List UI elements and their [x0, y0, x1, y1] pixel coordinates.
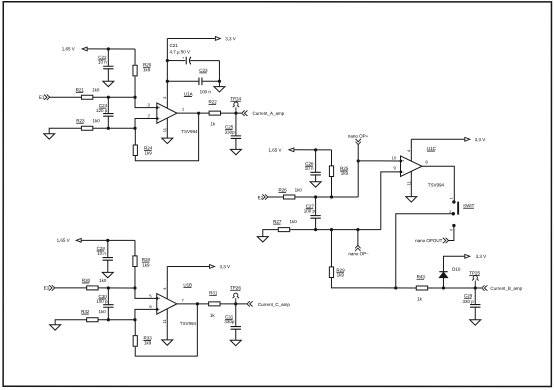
svg-text:1k0: 1k0: [98, 309, 106, 314]
svg-text:100 p: 100 p: [96, 299, 108, 304]
ground: [406, 197, 417, 202]
svg-text:1,65 V: 1,65 V: [62, 46, 75, 51]
svg-text:C29: C29: [464, 293, 473, 298]
testpoint TP24: [235, 107, 237, 113]
wire: [134, 320, 136, 335]
svg-text:C21: C21: [169, 43, 178, 48]
svg-text:10 n: 10 n: [97, 251, 106, 256]
svg-text:nano OPOUT: nano OPOUT: [415, 238, 443, 243]
svg-text:U1A: U1A: [184, 92, 193, 97]
svg-text:120 p: 120 p: [96, 108, 108, 113]
node: [234, 302, 237, 305]
svg-text:1k: 1k: [210, 313, 216, 318]
wire feedback A: [135, 113, 198, 161]
testpoint TP25: [474, 280, 476, 288]
wire: [221, 112, 241, 114]
svg-text:7: 7: [182, 298, 185, 303]
svg-text:1k0: 1k0: [92, 87, 100, 92]
svg-text:4: 4: [162, 96, 167, 99]
svg-text:10 n: 10 n: [98, 60, 107, 65]
wire: [49, 128, 81, 134]
wire: [50, 96, 82, 98]
svg-text:R32: R32: [81, 309, 90, 314]
node -inC: [107, 318, 110, 321]
wire: [268, 196, 284, 198]
node outC: [196, 302, 199, 305]
wire pin11 to ground: [166, 118, 168, 138]
svg-text:9: 9: [394, 165, 397, 170]
wire pin4 to 3.3V: [410, 139, 412, 161]
svg-text:11: 11: [162, 127, 167, 132]
connector Current_B_amp: [482, 285, 485, 290]
svg-text:1k9: 1k9: [144, 340, 152, 345]
switch SWIT terminal 3: [452, 224, 455, 227]
svg-text:3: 3: [147, 102, 150, 107]
wire: [331, 150, 333, 166]
wire pin4 to 3.3V: [166, 266, 168, 298]
svg-text:3,3 V: 3,3 V: [475, 137, 486, 142]
resistor R24: [133, 145, 137, 156]
wire: [93, 96, 135, 98]
ground: [102, 272, 113, 277]
resistor R32: [87, 318, 98, 322]
svg-text:R43: R43: [417, 274, 426, 279]
svg-text:Current_A_amp: Current_A_amp: [253, 111, 285, 116]
capacitor C29: [474, 288, 476, 305]
resistor R26: [283, 195, 294, 199]
node: [474, 286, 477, 289]
wire pin9: [381, 172, 401, 230]
op-amp U1A: [157, 103, 177, 123]
svg-text:1k0: 1k0: [99, 278, 107, 283]
svg-text:4: 4: [162, 287, 167, 290]
svg-text:4,7 µ 50 V: 4,7 µ 50 V: [169, 49, 190, 54]
svg-text:SWIT: SWIT: [463, 203, 475, 208]
connector Current_C_amp: [247, 301, 250, 306]
svg-text:3: 3: [449, 229, 453, 231]
power 3.3V (circuit B): [411, 138, 465, 140]
svg-text:1: 1: [449, 197, 453, 199]
svg-text:U1C: U1C: [427, 146, 437, 151]
svg-text:1k9: 1k9: [143, 67, 151, 72]
svg-text:8: 8: [425, 159, 428, 164]
svg-text:6: 6: [149, 304, 152, 309]
resistor R23: [81, 126, 92, 130]
svg-text:+: +: [159, 106, 161, 110]
resistor R25: [329, 166, 333, 177]
wire: [87, 48, 135, 50]
svg-text:1k9: 1k9: [142, 263, 150, 268]
svg-text:TP25: TP25: [469, 270, 480, 275]
wire: [220, 303, 246, 305]
svg-text:330p: 330p: [225, 130, 236, 135]
svg-text:1,65 V: 1,65 V: [57, 238, 70, 243]
svg-text:5: 5: [149, 293, 152, 298]
ground: [230, 149, 241, 154]
ground: [50, 325, 61, 330]
wire pin5: [135, 288, 157, 298]
power 3.3V (diode): [465, 254, 470, 258]
capacitor C22: [107, 49, 109, 66]
svg-text:330p: 330p: [224, 319, 235, 324]
power 3.3V (circuit A): [167, 37, 215, 39]
svg-text:TSV994: TSV994: [180, 321, 197, 326]
svg-text:1k9: 1k9: [337, 273, 345, 278]
wire pin11 to ground: [166, 309, 168, 340]
ground: [44, 134, 55, 139]
svg-text:U1B: U1B: [183, 282, 192, 287]
svg-text:1k0: 1k0: [93, 118, 101, 123]
node: [394, 286, 397, 289]
node: [234, 112, 237, 115]
svg-text:+: +: [402, 159, 404, 163]
wire: [134, 128, 136, 145]
capacitor C28: [107, 240, 109, 257]
wire pin10: [358, 160, 400, 162]
svg-text:Current_B_amp: Current_B_amp: [490, 286, 522, 291]
svg-text:1,65 V: 1,65 V: [269, 148, 282, 153]
node bias C: [106, 239, 109, 242]
svg-text:R26: R26: [279, 188, 288, 193]
svg-text:TSV994: TSV994: [181, 129, 198, 134]
wire: [443, 256, 464, 271]
svg-text:nano OP−: nano OP−: [348, 251, 369, 256]
svg-text:−: −: [159, 308, 161, 312]
svg-text:2: 2: [147, 113, 150, 118]
node -inB: [314, 228, 317, 231]
wire: [98, 319, 135, 321]
wire pin4 to 3.3V rail: [166, 38, 168, 108]
wire: [330, 230, 332, 267]
svg-text:TP26: TP26: [230, 285, 241, 290]
op-amp U1C: [401, 156, 423, 177]
svg-text:330 p: 330 p: [462, 299, 474, 304]
switch SWIT actuator: [457, 202, 459, 215]
svg-text:+: +: [182, 56, 184, 60]
svg-text:100 p: 100 p: [304, 209, 316, 214]
wire: [357, 145, 359, 197]
svg-text:R22: R22: [209, 99, 218, 104]
resistor R28: [133, 256, 137, 267]
ground: [162, 138, 173, 143]
svg-text:R28: R28: [142, 257, 151, 262]
capacitor C26: [315, 150, 317, 173]
node: [166, 59, 169, 62]
wire: [295, 196, 359, 198]
ground: [470, 320, 481, 325]
wire: [98, 287, 135, 289]
svg-text:−: −: [402, 170, 404, 174]
svg-text:1k9: 1k9: [341, 171, 349, 176]
node bias A: [107, 47, 110, 50]
capacitor C27: [315, 197, 317, 216]
resistor R29: [329, 267, 333, 278]
wire: [263, 230, 279, 237]
wire: [55, 320, 87, 325]
resistor R21: [81, 95, 92, 99]
capacitor C31: [235, 304, 237, 327]
resistor R20: [133, 65, 137, 76]
svg-text:10 n: 10 n: [305, 166, 314, 171]
svg-text:E3: E3: [44, 286, 50, 291]
capacitor C24: [107, 97, 109, 113]
wire: [93, 127, 135, 129]
svg-text:1k: 1k: [417, 297, 423, 302]
ground: [230, 340, 241, 345]
wire: [134, 49, 136, 65]
svg-text:+: +: [159, 296, 161, 300]
connector Current_A_amp: [242, 110, 245, 115]
wire: [218, 61, 220, 87]
wire pin2: [135, 119, 157, 129]
ground: [310, 182, 321, 187]
svg-text:11: 11: [162, 319, 167, 324]
svg-text:C23: C23: [199, 68, 208, 73]
op-amp U1B: [157, 294, 177, 315]
svg-text:TP24: TP24: [230, 96, 241, 101]
switch SWIT terminal 1: [452, 200, 455, 203]
node: [166, 80, 169, 83]
svg-text:R21: R21: [76, 87, 85, 92]
switch SWIT terminal 2: [452, 212, 455, 215]
svg-text:Current_C_amp: Current_C_amp: [258, 302, 291, 307]
svg-text:R30: R30: [82, 278, 91, 283]
wire switch to output node: [396, 214, 454, 288]
wire: [81, 239, 135, 241]
svg-text:D10: D10: [452, 267, 461, 272]
ground: [257, 237, 268, 242]
wire: [55, 287, 87, 289]
testpoint TP26: [235, 298, 237, 304]
svg-text:R31: R31: [209, 290, 218, 295]
node bias B: [314, 148, 317, 151]
wire: [290, 229, 381, 231]
svg-text:1: 1: [182, 107, 185, 112]
wire pin11 to ground: [410, 171, 412, 196]
capacitor C23: [167, 80, 198, 82]
wire pin6: [135, 309, 157, 319]
node +inC: [107, 286, 110, 289]
node outA: [197, 112, 200, 115]
ground: [103, 81, 114, 86]
wire pin3: [135, 97, 157, 107]
wire: [294, 149, 332, 151]
resistor R31: [209, 302, 220, 306]
wire: [357, 230, 359, 246]
svg-text:1k0: 1k0: [289, 219, 297, 224]
svg-text:100 n: 100 n: [200, 89, 212, 94]
power 3.3V (circuit C): [167, 265, 210, 267]
svg-text:3,3 V: 3,3 V: [476, 254, 487, 259]
node: [442, 286, 445, 289]
svg-text:4: 4: [406, 149, 411, 152]
svg-text:10: 10: [392, 155, 397, 160]
svg-text:−: −: [159, 117, 161, 121]
resistor R33: [133, 336, 137, 347]
wire: [134, 240, 136, 256]
ground: [214, 87, 225, 92]
svg-text:3,3 V: 3,3 V: [225, 36, 236, 41]
svg-text:1k9: 1k9: [145, 150, 153, 155]
svg-text:R23: R23: [76, 118, 85, 123]
node: [218, 80, 221, 83]
diode D10: [442, 278, 444, 288]
wire output U1C to switch: [422, 166, 454, 202]
svg-text:3,3 V: 3,3 V: [219, 264, 230, 269]
resistor R30: [87, 286, 98, 290]
svg-text:nano OP+: nano OP+: [348, 134, 369, 139]
node +inB: [314, 195, 317, 198]
node +inA: [107, 96, 110, 99]
svg-text:1k: 1k: [210, 121, 216, 126]
resistor R27: [278, 228, 289, 232]
node: [357, 159, 360, 162]
wire: [428, 287, 481, 289]
node -inA: [107, 127, 110, 130]
wire output A: [177, 112, 210, 114]
svg-text:TSV994: TSV994: [428, 183, 445, 188]
resistor R43: [416, 286, 427, 290]
wire output C: [177, 303, 209, 305]
wire: [449, 226, 454, 241]
ground: [162, 340, 173, 345]
svg-text:11: 11: [406, 181, 411, 186]
capacitor C30: [107, 288, 109, 305]
capacitor C21 polarized 4.7u: [167, 60, 185, 62]
wire feedback C: [135, 304, 197, 356]
resistor R22: [209, 111, 220, 115]
svg-text:1k0: 1k0: [295, 188, 303, 193]
svg-text:E1: E1: [39, 95, 45, 100]
capacitor C25: [235, 113, 237, 136]
svg-text:R27: R27: [273, 219, 282, 224]
